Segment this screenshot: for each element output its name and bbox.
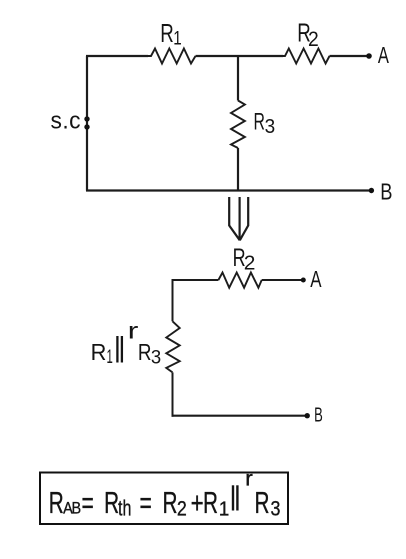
svg-text:s.c: s.c [51, 107, 82, 134]
svg-text:R: R [49, 485, 64, 520]
svg-text:2: 2 [244, 252, 256, 274]
svg-text:B: B [72, 499, 82, 517]
svg-text:R: R [104, 485, 119, 520]
svg-text:R: R [255, 485, 270, 520]
svg-text:+: + [191, 486, 204, 520]
svg-text:R: R [254, 109, 265, 135]
svg-text:=: = [82, 485, 94, 520]
svg-text:r: r [128, 318, 139, 343]
svg-text:1: 1 [219, 498, 230, 521]
svg-text:1: 1 [173, 27, 181, 49]
svg-text:=: = [140, 485, 152, 520]
svg-text:B: B [314, 404, 323, 427]
svg-text:1: 1 [107, 347, 113, 368]
svg-text:R: R [91, 339, 107, 365]
svg-text:2: 2 [177, 497, 187, 521]
svg-text:R: R [160, 18, 174, 48]
svg-text:R: R [203, 485, 218, 520]
svg-text:A: A [378, 43, 390, 68]
svg-text:3: 3 [265, 116, 276, 139]
svg-text:r: r [245, 466, 253, 490]
svg-text:2: 2 [308, 28, 319, 51]
svg-text:3: 3 [271, 497, 281, 521]
svg-text:3: 3 [151, 347, 161, 369]
svg-text:B: B [380, 179, 392, 205]
svg-text:R: R [163, 485, 178, 520]
svg-text:th: th [118, 497, 131, 521]
svg-text:A: A [310, 266, 322, 292]
svg-text:R: R [138, 340, 152, 365]
